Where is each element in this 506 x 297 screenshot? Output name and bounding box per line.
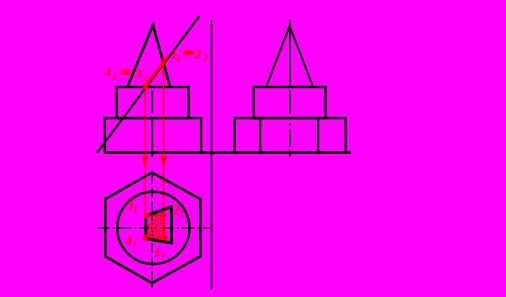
point 21 (red dot) [161, 212, 167, 218]
point 12=22 (red dot) [161, 60, 166, 65]
side view: upper rectangle [254, 87, 326, 118]
identity sign of label 12=22 [183, 51, 194, 54]
point 41 (red dot) [143, 235, 149, 241]
plan view: circle [117, 192, 189, 264]
red projection arrowhead right [160, 156, 166, 168]
red projection arrowhead left [142, 156, 148, 168]
red projection line from 12=22 down to 11 [163, 62, 165, 238]
side view: lower rectangle [235, 118, 346, 152]
front view: lower rectangle (hex prism) [105, 118, 201, 152]
front view: upper rectangle (cylinder) [117, 87, 189, 118]
point 42=32 (red dot) [142, 83, 148, 89]
red projection line from 42=32 down to 41 [144, 86, 146, 238]
front view: cone triangle [127, 25, 170, 87]
plan view: hexagon [105, 173, 200, 284]
point 31 (red dot) [144, 213, 150, 219]
front view: cone axis line (dash segments) [151, 90, 153, 113]
vertical axis line between views [211, 20, 213, 290]
plan view: horizontal center line [97, 227, 210, 229]
plan view: black section trapezoid [146, 207, 172, 243]
side view: hexagon edge line left [259, 118, 261, 152]
identity sign of label 42=32 [120, 70, 131, 74]
red section segment 4232-1222 [146, 56, 169, 87]
ground line (base line under front and side views) [104, 151, 351, 154]
plan view: vertical center line [151, 174, 153, 288]
side view: cone triangle [266, 26, 313, 87]
side view: center axis line [289, 19, 291, 86]
point 11 (red dot) [162, 235, 168, 241]
cutting plane trace (black diagonal line) [97, 16, 200, 153]
side view: hexagon edge line right [317, 118, 319, 152]
